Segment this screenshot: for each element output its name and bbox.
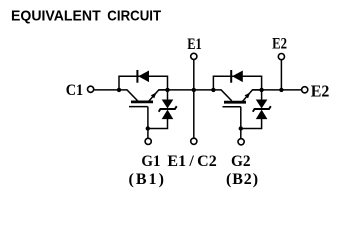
transistor Q2 emitter path: [242, 90, 262, 102]
node E2 rail junction dot: [279, 88, 283, 92]
wire rail right: [252, 89, 301, 91]
node A junction dot: [117, 88, 121, 92]
diode D1 cathode bar: [136, 70, 138, 83]
terminal G1 circle: [145, 138, 151, 144]
wire top branch right cell: [213, 76, 261, 90]
svg-text:E2: E2: [272, 36, 287, 53]
wire zener Z1 bottom to gate: [148, 119, 168, 129]
transistor Q1 body bar: [131, 101, 153, 104]
transistor Q1 emitter arrow: [151, 92, 157, 98]
wire Q1 gate to G1: [147, 107, 149, 139]
terminal E2 top circle: [278, 54, 284, 60]
diode D1 triangle: [138, 71, 149, 83]
zener Z2 lower triangle: [256, 110, 268, 120]
terminal C1 circle: [88, 86, 94, 92]
node B2 junction dot: [259, 88, 263, 92]
zener Z1 middle bar: [159, 106, 177, 112]
node B junction dot: [165, 88, 169, 92]
node E1 rail junction dot: [192, 88, 196, 92]
zener Z1 lower triangle: [162, 110, 174, 120]
transistor Q2 emitter arrow: [245, 92, 251, 98]
node G2 junction dot: [239, 126, 243, 130]
terminal E1 circle: [191, 53, 197, 59]
zener Z2 upper triangle: [256, 100, 268, 109]
wire zener Z2 bottom to gate: [241, 119, 262, 129]
svg-text:E1: E1: [187, 36, 202, 53]
terminal G2 circle: [238, 139, 244, 145]
transistor Q1 collector diagonal: [127, 90, 138, 101]
zener Z1 upper triangle: [162, 100, 174, 109]
wire E2 vertical: [280, 60, 282, 90]
terminal E1/C2 circle: [191, 138, 197, 144]
wire C1 to collector diagonal: [94, 89, 127, 91]
terminal E2 right circle: [302, 87, 308, 93]
zener Z2 middle bar: [253, 106, 271, 112]
wire zener Z2 top stem: [261, 90, 263, 100]
transistor Q1 gate line: [129, 106, 148, 108]
transistor Q2 body bar: [224, 101, 246, 104]
transistor Q1 emitter path: [148, 90, 168, 102]
svg-text:E2: E2: [311, 81, 330, 100]
diode D2 triangle: [232, 71, 243, 83]
svg-text:EQUIVALENT: EQUIVALENT: [11, 8, 101, 25]
wire Q2 gate to G2: [240, 107, 242, 139]
node A2 junction dot: [211, 88, 215, 92]
svg-text:G2: G2: [231, 153, 251, 170]
svg-text:E1 / C2: E1 / C2: [167, 153, 216, 170]
svg-text:(B2): (B2): [226, 171, 258, 188]
transistor Q2 collector diagonal: [221, 90, 232, 101]
transistor Q2 gate line: [223, 106, 241, 108]
node G1 junction dot: [146, 126, 150, 130]
wire rail middle: [159, 89, 222, 91]
wire top branch left cell: [119, 76, 168, 90]
svg-text:CIRCUIT: CIRCUIT: [107, 8, 161, 25]
diode D2 cathode bar: [230, 70, 232, 83]
svg-text:(B1): (B1): [129, 171, 164, 188]
wire zener Z1 top stem: [167, 90, 169, 100]
wire E1 vertical: [193, 60, 195, 138]
svg-text:G1: G1: [141, 153, 160, 170]
svg-text:C1: C1: [66, 82, 84, 99]
